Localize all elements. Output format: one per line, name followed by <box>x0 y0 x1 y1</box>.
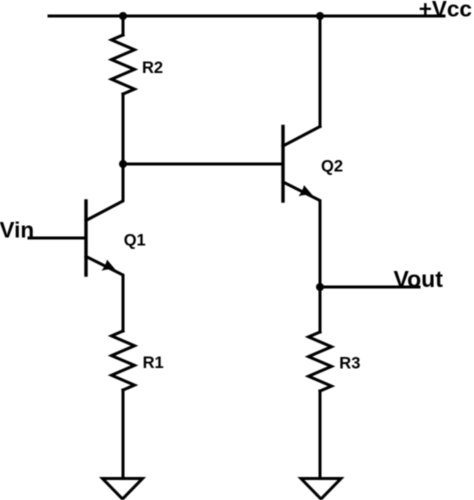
svg-text:+Vcc: +Vcc <box>419 0 472 21</box>
svg-text:Q1: Q1 <box>124 232 146 250</box>
svg-text:R3: R3 <box>339 355 360 373</box>
svg-text:Vin: Vin <box>0 217 34 242</box>
svg-text:Q2: Q2 <box>321 157 343 175</box>
svg-text:R2: R2 <box>142 59 163 77</box>
svg-text:Vout: Vout <box>394 266 444 292</box>
svg-text:R1: R1 <box>143 354 164 372</box>
